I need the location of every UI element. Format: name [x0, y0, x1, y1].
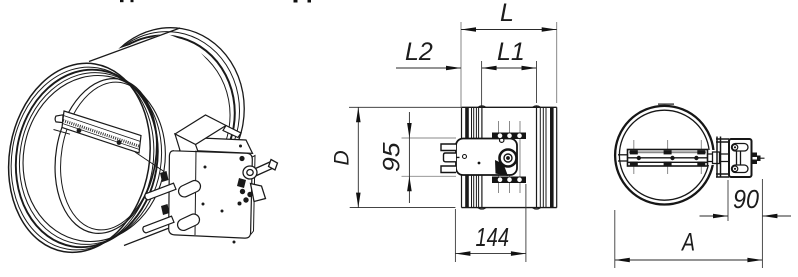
actuator front body	[729, 139, 752, 177]
circle inner ring	[619, 110, 709, 200]
clamp ring	[243, 166, 257, 179]
box right face line	[251, 156, 255, 235]
front rim ring 5	[11, 65, 178, 253]
blade shaft stub left	[55, 115, 63, 123]
blade bar front view	[628, 150, 708, 167]
right bead lines	[536, 106, 538, 208]
bracket clip dark bits	[160, 171, 170, 215]
svg-text:A: A	[680, 229, 695, 257]
front rim ring 3 thick bead	[3, 59, 171, 258]
dimension 144 line	[455, 253, 526, 255]
blade edge continuation	[135, 152, 164, 172]
duct body top silhouette	[89, 28, 180, 62]
dimension L2/L1 arrows	[446, 66, 537, 71]
actuator slot lower	[176, 212, 202, 232]
dimension 95 line	[408, 112, 410, 203]
actuator terminals	[441, 144, 460, 173]
bead crown bumps	[478, 106, 541, 209]
dimension D arrows	[356, 107, 361, 207]
inner opening lip outer	[44, 71, 168, 241]
actuator dot	[478, 162, 481, 165]
actuator screws	[732, 145, 738, 172]
blade bar 3D	[54, 111, 142, 153]
blade mounting bar	[62, 111, 141, 153]
shaft collar	[713, 152, 720, 164]
clamp bar top	[492, 133, 526, 140]
dimension 90 lines outside	[700, 215, 792, 217]
actuator right clamp bits	[752, 153, 761, 165]
actuator slot upper	[177, 179, 203, 199]
left flange bead thick	[465, 107, 469, 207]
blade bolts nuts	[630, 150, 706, 166]
actuator slot top	[732, 144, 749, 152]
actuator box front face	[169, 151, 253, 238]
back rim ring 3	[77, 20, 252, 206]
blade bar hatch strip	[64, 116, 141, 142]
back rim ring 1	[73, 28, 241, 205]
lever wedge	[251, 184, 266, 202]
actuator top circle	[500, 138, 504, 142]
top edge	[462, 106, 557, 108]
actuator bolt axis lines	[499, 121, 521, 193]
svg-text:L1: L1	[497, 38, 525, 66]
blade edge line	[54, 130, 71, 135]
duct side view body	[462, 106, 557, 208]
svg-text:L: L	[500, 0, 514, 27]
dimension A line	[615, 259, 763, 261]
shaft clamp assembly	[243, 160, 278, 202]
back rim ring 4	[79, 16, 257, 207]
front rim ring 4	[7, 62, 175, 256]
svg-text:144: 144	[476, 222, 510, 252]
svg-text:L2: L2	[405, 38, 433, 66]
actuator box top face	[180, 138, 253, 154]
left bead lines	[471, 107, 473, 207]
actuator rod upper	[143, 179, 203, 233]
front rim ring outer	[0, 52, 164, 263]
duct body bottom silhouette	[124, 223, 182, 246]
dimension 90 extension lines	[728, 179, 762, 268]
dimension 144 arrows	[455, 251, 526, 256]
actuator slot bottom	[732, 165, 749, 173]
shaft gap white	[707, 150, 719, 165]
dimension A extension line left	[614, 210, 616, 268]
right flange bead thick	[550, 107, 554, 207]
crank rod	[252, 162, 275, 177]
actuator small hole	[463, 155, 467, 159]
dimension D line	[357, 107, 359, 207]
circle outer ring	[615, 106, 714, 205]
dimension L arrows	[461, 27, 557, 32]
title text fragments (cropped)	[120, 0, 311, 3]
blade bolt axis lines	[634, 140, 702, 174]
dimension A arrows	[615, 258, 763, 263]
svg-text:D: D	[331, 150, 354, 165]
bracket slot column line	[195, 151, 196, 236]
bottom edge	[462, 207, 557, 209]
front collar white mask	[0, 52, 178, 263]
extension lines L1	[482, 61, 537, 107]
dimension L line	[461, 29, 557, 31]
back rim ring 2 thick	[75, 24, 247, 206]
actuator mounting bracket	[716, 137, 729, 178]
clamp bar bottom	[492, 177, 526, 184]
duct body white fill	[55, 33, 229, 246]
svg-text:90: 90	[733, 184, 759, 214]
dimension L extension lines	[461, 22, 557, 107]
front rim ring 2	[0, 56, 167, 261]
actuator side view body	[456, 139, 517, 176]
blade shaft stubs	[618, 154, 729, 162]
dimension L2 line	[396, 67, 537, 69]
inner opening lip inner	[50, 75, 167, 237]
actuator middle channels	[737, 151, 741, 165]
actuator face screws	[202, 145, 243, 244]
actuator shaft rings	[500, 150, 517, 167]
dimension 95 extension lines	[402, 138, 457, 176]
blade bar screws	[77, 128, 122, 145]
dimension 95 arrows outside	[407, 123, 412, 191]
svg-text:95: 95	[379, 142, 406, 172]
right edge	[556, 107, 558, 207]
left edge	[461, 107, 463, 207]
dimension 90 arrows	[713, 214, 777, 219]
dimension 144 extension lines	[455, 184, 526, 262]
dimension D extension lines	[349, 107, 461, 207]
actuator crank dark wedge	[495, 160, 508, 176]
circle top seam	[658, 103, 674, 105]
actuator rod lower	[143, 216, 174, 233]
actuator bracket plate 3D	[175, 115, 241, 157]
